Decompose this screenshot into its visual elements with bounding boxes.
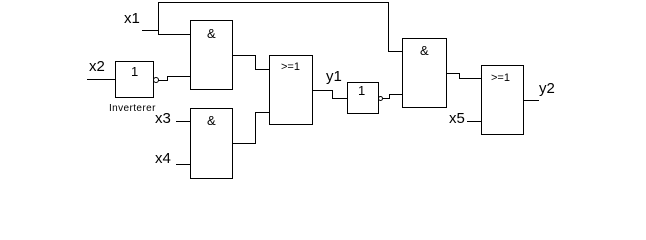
wire into OR U2 input 1 — [255, 69, 269, 70]
wire top bus horizontal — [158, 2, 389, 3]
wire into AND U3 input 1 — [388, 51, 402, 52]
AND gate U1 box — [190, 20, 233, 90]
node x4 label — [155, 151, 171, 166]
node y2 label — [539, 81, 555, 96]
AND gate U3 box — [402, 38, 447, 108]
wire jog up to OR U2 — [255, 112, 256, 144]
wire into OR U4 input 1 — [459, 78, 481, 79]
wire AND U3 output — [446, 73, 460, 74]
wire into AND U3 input 2 — [389, 94, 402, 95]
wire jog down to OR U2 — [255, 55, 256, 70]
wire inverter U5 output — [158, 80, 168, 81]
OR gate U4 box — [481, 65, 524, 135]
node x3 label — [155, 111, 171, 126]
AND gate U3 label & — [420, 44, 429, 57]
wire x5 lead — [467, 121, 481, 122]
node x1 label — [124, 11, 140, 26]
wire AND U1 output — [232, 55, 256, 56]
wire jog down to OR U4 — [459, 73, 460, 79]
OR gate U2 label >=1 — [281, 62, 300, 73]
wire into OR U2 input 2 — [255, 112, 269, 113]
wire jog up — [389, 94, 390, 99]
wire OR U4 output y2 — [523, 100, 539, 101]
wire OR U2 output y1 — [312, 90, 333, 91]
node x5 label — [449, 111, 465, 126]
wire top bus drop to U3 — [388, 2, 389, 52]
inverter U5 label 1 — [131, 65, 138, 78]
AND gate U6 label & — [207, 114, 216, 127]
AND gate U6 box — [190, 108, 233, 179]
wire x1 vertical riser to top bus — [158, 2, 159, 35]
wire inverter U7 output — [383, 98, 390, 99]
wire x4 lead — [176, 164, 190, 165]
OR gate U2 box — [269, 55, 313, 125]
node y1 label — [326, 69, 342, 84]
wire jog down — [332, 90, 333, 99]
node x2 label — [89, 59, 105, 74]
inverter U5 box — [115, 61, 154, 98]
inverter U7 box — [347, 82, 379, 114]
wire into inverter U7 — [332, 98, 347, 99]
inverter U7 output bubble — [378, 96, 383, 101]
AND gate U1 label & — [207, 27, 216, 40]
wire jog up — [167, 76, 168, 81]
OR gate U4 label >=1 — [491, 73, 510, 84]
wire into AND U1 input 2 — [167, 76, 190, 77]
inverter U7 label 1 — [358, 84, 365, 97]
wire x2 lead — [87, 79, 115, 80]
inverter U5 output bubble — [153, 77, 159, 83]
wire AND U6 output — [232, 143, 256, 144]
wire x1 lead — [142, 30, 159, 31]
wire into AND U1 input 1 — [158, 34, 190, 35]
inverter U5 caption Inverterer — [109, 104, 156, 114]
wire x3 lead — [176, 121, 190, 122]
